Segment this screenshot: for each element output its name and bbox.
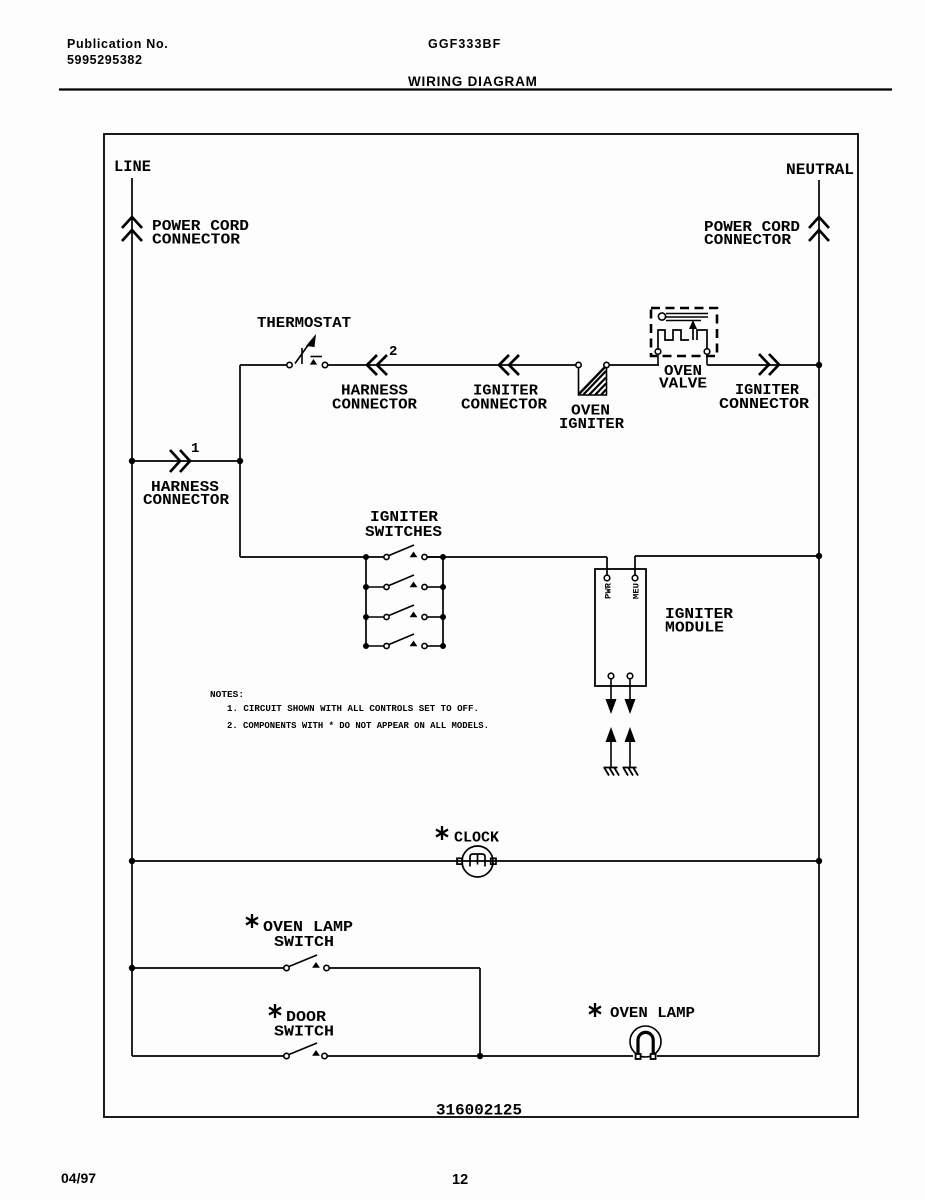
svg-text:CONNECTOR: CONNECTOR xyxy=(143,492,229,509)
junction dot line/harness1 xyxy=(129,458,135,464)
igniter switch 1 xyxy=(384,545,443,560)
svg-text:04/97: 04/97 xyxy=(61,1170,96,1186)
svg-text:12: 12 xyxy=(452,1172,468,1188)
harness connector 1 chevrons xyxy=(170,450,190,472)
igniter module bottom pins xyxy=(608,673,633,679)
oven valve dashed box xyxy=(651,308,717,356)
igniter connector (mid) label xyxy=(461,383,547,414)
svg-text:2. COMPONENTS WITH * DO NOT AP: 2. COMPONENTS WITH * DO NOT APPEAR ON AL… xyxy=(227,720,489,731)
igniter switches left bus xyxy=(365,557,367,646)
oven lamp asterisk xyxy=(589,1003,601,1017)
node LINE label xyxy=(114,158,151,176)
clock asterisk xyxy=(436,826,448,840)
oven lamp xyxy=(630,1026,661,1059)
svg-text:316002125: 316002125 xyxy=(436,1102,522,1120)
ground (right) xyxy=(623,768,639,776)
junction dot neutral/module wire xyxy=(816,553,822,559)
igniter switch 3 xyxy=(366,605,443,620)
svg-text:SWITCHES: SWITCHES xyxy=(365,524,442,541)
clock motor xyxy=(457,846,496,877)
svg-text:2: 2 xyxy=(389,344,397,360)
oven valve pins xyxy=(655,349,710,365)
svg-text:CLOCK: CLOCK xyxy=(454,830,499,847)
igniter module label xyxy=(665,606,733,637)
svg-text:Publication No.: Publication No. xyxy=(67,37,168,51)
plug arrows from module (down) xyxy=(611,679,630,701)
clock label xyxy=(454,830,499,847)
svg-text:CONNECTOR: CONNECTOR xyxy=(332,397,417,414)
svg-text:NOTES:: NOTES: xyxy=(210,689,244,700)
oven lamp switch label xyxy=(263,919,353,951)
svg-text:SWITCH: SWITCH xyxy=(274,1024,334,1041)
wire NEUTRAL vertical xyxy=(818,180,820,1056)
wire oven lamp switch row xyxy=(132,968,480,1056)
svg-text:5995295382: 5995295382 xyxy=(67,53,143,67)
svg-text:CONNECTOR: CONNECTOR xyxy=(152,232,240,249)
door switch label xyxy=(274,1009,334,1041)
oven lamp label xyxy=(610,1005,695,1022)
wire harness connector 1 row xyxy=(132,460,240,462)
svg-text:OVEN LAMP: OVEN LAMP xyxy=(610,1005,695,1022)
svg-text:LINE: LINE xyxy=(114,158,151,176)
oven valve arrow xyxy=(689,320,697,329)
harness connector 1 label xyxy=(143,479,229,509)
svg-text:GGF333BF: GGF333BF xyxy=(428,37,501,51)
igniter switches label xyxy=(365,509,442,541)
igniter module pin label PWR xyxy=(604,582,614,599)
svg-text:IGNITER: IGNITER xyxy=(559,416,624,433)
wire igniter module to neutral xyxy=(635,556,819,575)
svg-text:NEUTRAL: NEUTRAL xyxy=(786,161,854,179)
oven valve label xyxy=(659,363,707,393)
header rule xyxy=(59,88,892,90)
svg-text:CONNECTOR: CONNECTOR xyxy=(719,396,809,413)
oven lamp switch contacts xyxy=(284,955,329,971)
ground (left) xyxy=(604,768,620,776)
junction dot harness1/vertical xyxy=(237,458,243,464)
header publication number xyxy=(67,37,168,67)
door switch asterisk xyxy=(269,1004,281,1018)
svg-text:VALVE: VALVE xyxy=(659,376,707,393)
igniter switches right bus xyxy=(442,557,444,646)
wire clock row xyxy=(132,860,819,862)
plug arrows from ground (up) xyxy=(606,727,636,742)
svg-text:THERMOSTAT: THERMOSTAT xyxy=(257,315,351,332)
harness connector 2 chevrons xyxy=(367,355,387,375)
junction dot door row / lamp branch xyxy=(477,1053,483,1059)
igniter connector (mid) chevrons xyxy=(499,355,519,375)
svg-text:CONNECTOR: CONNECTOR xyxy=(461,397,547,414)
igniter connector (right) chevrons xyxy=(759,354,779,375)
svg-text:PWR: PWR xyxy=(604,582,614,599)
power cord connector (neutral side) xyxy=(809,217,829,241)
svg-text:MODULE: MODULE xyxy=(665,620,724,637)
part number 316002125 xyxy=(436,1102,522,1120)
power cord connector (line side) xyxy=(122,217,142,241)
harness connector 2 pin number xyxy=(389,344,397,360)
door switch contacts xyxy=(284,1043,327,1059)
header title WIRING DIAGRAM xyxy=(408,74,538,89)
svg-text:1. CIRCUIT SHOWN WITH ALL CONT: 1. CIRCUIT SHOWN WITH ALL CONTROLS SET T… xyxy=(227,703,479,714)
wire thermostat row xyxy=(240,364,819,366)
oven igniter xyxy=(576,362,609,395)
harness connector 1 pin number xyxy=(191,441,199,457)
oven igniter label xyxy=(559,403,624,434)
igniter module pin label MEU xyxy=(632,583,642,599)
footer date xyxy=(61,1170,96,1186)
wire igniter switch top row xyxy=(240,557,607,575)
thermostat THERMOSTAT xyxy=(257,315,351,332)
wire door switch row xyxy=(132,1055,819,1057)
igniter module box xyxy=(595,569,646,686)
oven lamp switch asterisk xyxy=(246,914,258,928)
svg-text:SWITCH: SWITCH xyxy=(274,934,334,951)
wire LINE vertical xyxy=(131,178,133,1056)
igniter module top pins xyxy=(604,575,638,581)
igniter switch 4 xyxy=(366,634,443,649)
igniter switch 2 xyxy=(366,575,443,590)
header model number GGF333BF xyxy=(428,37,501,51)
junction dot clock row / neutral xyxy=(816,858,822,864)
svg-text:CONNECTOR: CONNECTOR xyxy=(704,232,791,249)
junction dot clock row / line xyxy=(129,858,135,864)
oven valve coil xyxy=(658,313,708,321)
oven valve body (square wave) xyxy=(658,327,707,350)
node NEUTRAL label xyxy=(786,161,854,179)
notes xyxy=(210,689,489,731)
svg-text:1: 1 xyxy=(191,441,199,457)
footer page number xyxy=(452,1172,468,1188)
svg-text:MEU: MEU xyxy=(632,583,642,599)
junction dot at neutral / thermostat row xyxy=(816,362,822,368)
igniter connector (right) label xyxy=(719,382,809,413)
junction dot lamp switch / line xyxy=(129,965,135,971)
harness connector 2 label xyxy=(332,383,417,414)
wire vertical from thermostat row to switch row xyxy=(239,365,241,557)
diagram border frame xyxy=(104,134,858,1117)
svg-text:WIRING DIAGRAM: WIRING DIAGRAM xyxy=(408,74,538,89)
